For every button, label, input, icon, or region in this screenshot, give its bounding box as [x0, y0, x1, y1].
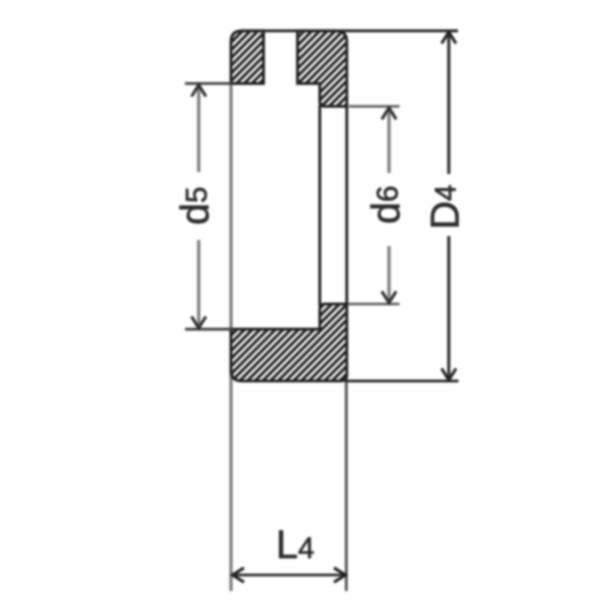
arrowhead d5 down — [192, 317, 206, 329]
section: top-left hatched flange — [231, 31, 264, 84]
bore wall inner (d6) left line — [318, 105, 321, 306]
arrowhead d5 up — [192, 85, 206, 97]
L4 right extension line — [345, 381, 348, 591]
svg-text:d6: d6 — [365, 186, 409, 224]
d6 bottom extension line — [348, 303, 400, 306]
D4 top extension line — [242, 29, 458, 32]
D4 bottom extension line — [345, 380, 459, 383]
arrowhead D4 up — [442, 32, 456, 44]
svg-text:d5: d5 — [174, 187, 218, 225]
arrowhead L4 right — [334, 568, 346, 582]
dimension line d6 (vertical, two segments) — [387, 110, 390, 173]
d6 top extension line — [349, 105, 400, 108]
d5 bottom extension line — [185, 328, 233, 331]
arrowhead d6 up — [382, 108, 396, 120]
arrowhead D4 down — [442, 369, 456, 381]
arrowhead d6 down — [382, 291, 396, 303]
d5 top extension line — [185, 82, 232, 85]
dimension line D4 (vertical, two segments) — [447, 34, 450, 175]
section: bottom hatched flange with step — [231, 304, 347, 381]
svg-text:D4: D4 — [424, 185, 468, 230]
section: top-right hatched flange with step — [298, 31, 347, 107]
centerline / bore left wall + L4 left extension line — [229, 85, 232, 592]
dimension line L4 (horizontal) — [234, 574, 344, 577]
arrowhead L4 left — [233, 568, 245, 582]
dimension line d5 (vertical, two segments) — [197, 86, 200, 172]
bore wall inner (d6) right line — [345, 104, 348, 306]
